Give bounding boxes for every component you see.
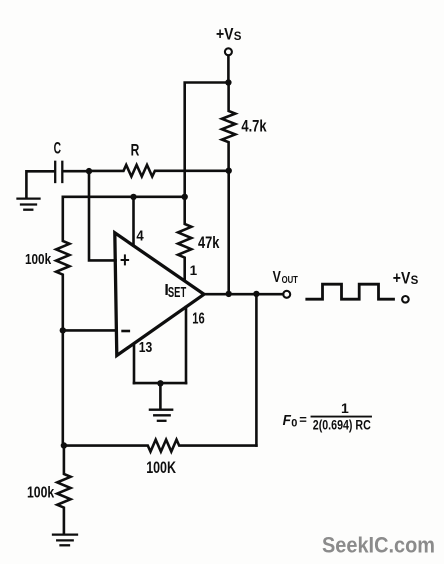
- svg-text:SeekIC.com: SeekIC.com: [322, 533, 435, 558]
- node: pin 4 tap: [130, 194, 136, 200]
- resistor 47k: [178, 197, 191, 280]
- wire: C right plate to RC node: [63, 170, 89, 173]
- svg-text:S: S: [411, 275, 419, 287]
- svg-text:100k: 100k: [25, 251, 52, 268]
- wire: ground stub: [159, 383, 162, 408]
- fraction bar: [312, 416, 372, 418]
- wire: 4.7k junction down to output node: [227, 171, 230, 294]
- svg-text:+V: +V: [216, 25, 234, 44]
- label Iset: [164, 282, 186, 301]
- wire: RC node to + input: [89, 171, 116, 260]
- capacitor C: [55, 162, 62, 182]
- svg-text:100k: 100k: [27, 485, 54, 502]
- svg-text:1: 1: [190, 263, 198, 278]
- svg-text:=: =: [299, 412, 307, 427]
- svg-text:C: C: [54, 139, 61, 158]
- square wave output symbol: [307, 284, 394, 299]
- ground (capacitor): [18, 199, 40, 210]
- svg-text:16: 16: [192, 310, 205, 327]
- label +Vs (top): [216, 25, 242, 44]
- terminal Vout: [283, 291, 290, 298]
- resistor 100K (bottom): [64, 440, 257, 452]
- svg-text:4.7k: 4.7k: [241, 117, 267, 135]
- wire: output: [203, 293, 283, 296]
- svg-text:S: S: [234, 31, 242, 43]
- node: output / feedback junction: [253, 291, 259, 297]
- wire: pin 13: [133, 344, 136, 383]
- node: R / 4.7k junction: [226, 168, 232, 174]
- label Vout: [273, 269, 298, 286]
- terminal +Vs (right): [402, 296, 409, 303]
- svg-text:100K: 100K: [146, 458, 176, 477]
- node: output / 4.7k junction: [226, 291, 232, 297]
- resistor 4.7k: [222, 83, 235, 171]
- node: top supply junction: [225, 79, 231, 85]
- resistor 100k (bottom-left): [57, 446, 70, 534]
- wire: - input: [63, 329, 117, 332]
- svg-text:OUT: OUT: [282, 275, 298, 286]
- ground (op-amp): [150, 410, 172, 421]
- svg-text:47k: 47k: [198, 233, 220, 252]
- op-amp U1: [115, 233, 204, 356]
- svg-text:13: 13: [139, 339, 153, 356]
- ground (bottom-left): [53, 535, 77, 546]
- op-amp - input mark: [123, 330, 129, 333]
- svg-text:+V: +V: [393, 269, 411, 288]
- svg-text:SET: SET: [168, 285, 186, 301]
- wire: left rail to bottom junction: [61, 330, 64, 445]
- wire: +Vs terminal to top junction: [227, 56, 230, 83]
- terminal +Vs (top): [225, 48, 232, 55]
- svg-text:V: V: [273, 269, 281, 286]
- resistor 100k (left): [56, 197, 69, 331]
- svg-text:R: R: [131, 141, 140, 160]
- wire: pin 4: [132, 197, 135, 246]
- node: ground tap: [157, 380, 163, 386]
- node: inverting input tap: [60, 327, 66, 333]
- svg-text:2(0.694) RC: 2(0.694) RC: [313, 418, 371, 433]
- wire: ground to C left plate: [26, 171, 54, 197]
- op-amp + input mark: [122, 255, 129, 264]
- node: RC junction: [86, 168, 92, 174]
- wire: top junction to left supply branch: [185, 83, 229, 197]
- wire: supply rail to pin4/47k: [63, 196, 185, 199]
- wire: pin 16: [185, 307, 188, 383]
- svg-text:F: F: [283, 412, 292, 429]
- svg-text:0: 0: [291, 417, 297, 429]
- label +Vs (right): [393, 269, 419, 288]
- formula F0 = 1/(2(0.694) RC): [283, 400, 371, 433]
- svg-text:4: 4: [136, 227, 144, 244]
- wire: pin13-pin16 bus: [134, 382, 186, 385]
- node: 47k top junction: [182, 194, 188, 200]
- node: bottom-left junction: [61, 442, 67, 448]
- resistor R: [89, 165, 229, 177]
- svg-text:1: 1: [341, 400, 349, 416]
- wire: feedback down: [255, 294, 258, 446]
